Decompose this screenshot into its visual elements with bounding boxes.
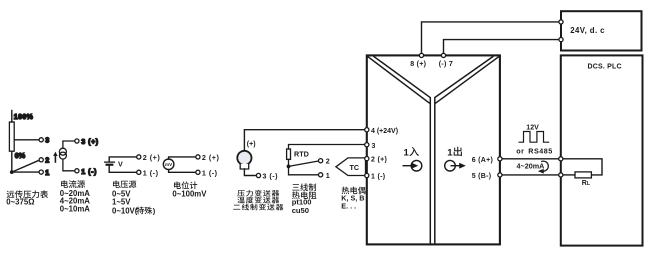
battery short plate [107,164,113,166]
label RL [582,180,591,187]
load resistor RL [575,172,591,178]
input symbol (circle with inward arrow) [403,160,422,171]
svg-text:2: 2 [326,157,330,166]
svg-text:12V: 12V [526,125,539,132]
terminal 2 [39,158,43,162]
battery long plate [105,161,115,163]
wire terminal 8 to 24V supply [422,22,560,53]
svg-text:0~10mA: 0~10mA [60,205,90,214]
wire to terminal 2 [169,157,196,159]
terminal 7 (top) [441,53,445,57]
wire to terminal 1 [63,159,75,171]
caption: RTD (thermal resistor) [292,191,316,199]
caption: thermocouple [342,187,366,195]
DCS terminal (top) [559,157,563,161]
svg-text:6 (A+): 6 (A+) [472,157,493,164]
terminal 2 [196,155,200,159]
svg-text:RTD: RTD [294,149,309,158]
isolator module box [367,55,500,244]
terminal 1 [365,173,369,177]
transmitter base [240,164,249,169]
label 1-out [447,147,462,159]
potentiometer lead (top) [11,111,13,123]
svg-text:0%: 0% [15,151,26,160]
svg-text:1: 1 [404,147,410,158]
terminal 4 [365,128,369,132]
caption: voltage source [113,180,136,188]
svg-text:1 (-): 1 (-) [202,168,218,177]
wire battery to terminal 1 [109,165,137,172]
isolation barrier right inner diagonal [435,56,494,98]
svg-text:2: 2 [45,156,49,165]
isolation barrier left inner diagonal [373,56,430,98]
current source symbol (two circles) [59,148,66,155]
RTD resistor body [287,149,291,159]
caption: potentiometer [174,181,197,189]
caption: two-wire transmitter [233,204,283,211]
caption 0~10V (special) [112,207,156,216]
svg-text:1: 1 [326,171,330,180]
24V d.c. supply box [561,11,642,50]
svg-text:cu50: cu50 [292,206,309,215]
label 1-in [404,147,419,158]
caption: temperature transmitter [237,197,279,204]
svg-text:mV: mV [165,162,173,167]
svg-text:TC: TC [350,163,360,172]
wire junction to terminal 1 [12,171,39,173]
wire to terminal 3 [14,139,39,141]
svg-text:1~5V: 1~5V [112,198,131,207]
isolation barrier right outer diagonal [435,56,499,103]
svg-text:or RS485: or RS485 [516,147,553,156]
svg-text:4~20mA: 4~20mA [517,162,545,171]
wire junction to open terminal 1 [289,166,319,174]
terminal 3 [365,143,369,147]
terminal 5 (right) [498,173,502,177]
svg-text:8 (+): 8 (+) [410,61,426,68]
terminal 3 [75,139,79,143]
svg-text:2 (+): 2 (+) [371,157,387,164]
wire RTD top to module terminal 3 [289,145,365,150]
output symbol (circle with outward arrow) [445,160,466,171]
wire RL to DCS terminal [563,174,575,176]
open terminal 1 [319,173,323,177]
terminal 1 [137,170,141,174]
svg-text:100%: 100% [14,114,34,121]
wire transmitter (-) to open terminal 3 [244,169,256,176]
caption: three-wire [292,183,316,191]
svg-text:1: 1 [45,168,49,177]
junction dot [10,170,14,174]
wire transmitter (+) to module terminal 4 [244,130,364,151]
svg-text:1 (-): 1 (-) [143,168,159,177]
svg-text:0~375Ω: 0~375Ω [6,198,34,207]
svg-text:DCS. PLC: DCS. PLC [588,63,622,70]
DCS PLC box [561,55,643,245]
mV source circle [163,159,174,170]
wire to terminal 1 [169,170,196,173]
svg-text:0~100mV: 0~100mV [172,189,207,198]
pulse waveform [519,132,550,143]
terminal 1 [39,170,43,174]
svg-text:1: 1 [447,147,453,158]
current loop arrow [541,161,548,171]
isolation barrier left vertical [429,97,431,243]
wire to terminal 3 [63,141,75,148]
wire battery to terminal 2 [109,157,137,162]
24V supply terminal (-) [559,38,563,42]
svg-text:1 (-): 1 (-) [81,167,97,176]
terminal 2 [137,155,141,159]
svg-text:3: 3 [45,136,49,145]
svg-text:3: 3 [372,143,376,150]
svg-text:4 (+24V): 4 (+24V) [371,128,398,135]
terminal 2 [365,157,369,161]
wire resistor bottom to junction [288,159,290,166]
DCS terminal (bottom) [559,173,563,177]
wiper wire to terminal 2 [12,160,39,172]
svg-text:(-) 7: (-) 7 [439,61,453,68]
svg-text:0~10V(: 0~10V( [112,207,138,216]
junction dot [287,165,291,169]
isolation barrier left outer diagonal [367,56,429,103]
svg-text:(+): (+) [247,141,256,148]
svg-text:3 (+): 3 (+) [81,137,99,146]
open terminal 2 [319,159,323,163]
wire terminal 7 to 24V supply [444,40,560,53]
thermocouple TC symbol [336,158,366,176]
terminal 6 (right) [498,157,502,161]
svg-text:24V, d. c: 24V, d. c [570,26,605,35]
DCS internal loop wire [563,159,602,175]
open terminal 3 (-) [256,173,260,177]
svg-text:1 (-): 1 (-) [371,174,385,181]
current direction arrow [54,155,56,162]
svg-text:5 (B-): 5 (B-) [472,173,492,180]
svg-text:3 (-): 3 (-) [262,172,278,181]
caption: pressure transmitter [237,190,279,197]
wire junction to open terminal 2 [289,161,319,166]
svg-text:2 (+): 2 (+) [143,153,161,162]
terminal 1 [196,170,200,174]
24V supply terminal (+) [559,20,563,24]
wire resistor bottom to junction [11,151,13,172]
svg-text:2 (+): 2 (+) [202,153,220,162]
caption: remote pressure gauge [7,190,48,198]
wire output 5 to DCS [502,174,559,176]
svg-text:E. . .: E. . . [341,201,356,210]
isolation barrier right vertical [434,97,436,243]
transmitter circle [237,151,251,165]
terminal 8 (top) [419,53,423,57]
svg-text:V: V [118,159,123,168]
caption: current source [61,180,85,188]
terminal 3 [39,138,43,142]
wire output 6 to DCS [502,158,559,160]
terminal 1 [75,169,79,173]
resistor body (remote pressure gauge potentiometer) [9,122,14,151]
